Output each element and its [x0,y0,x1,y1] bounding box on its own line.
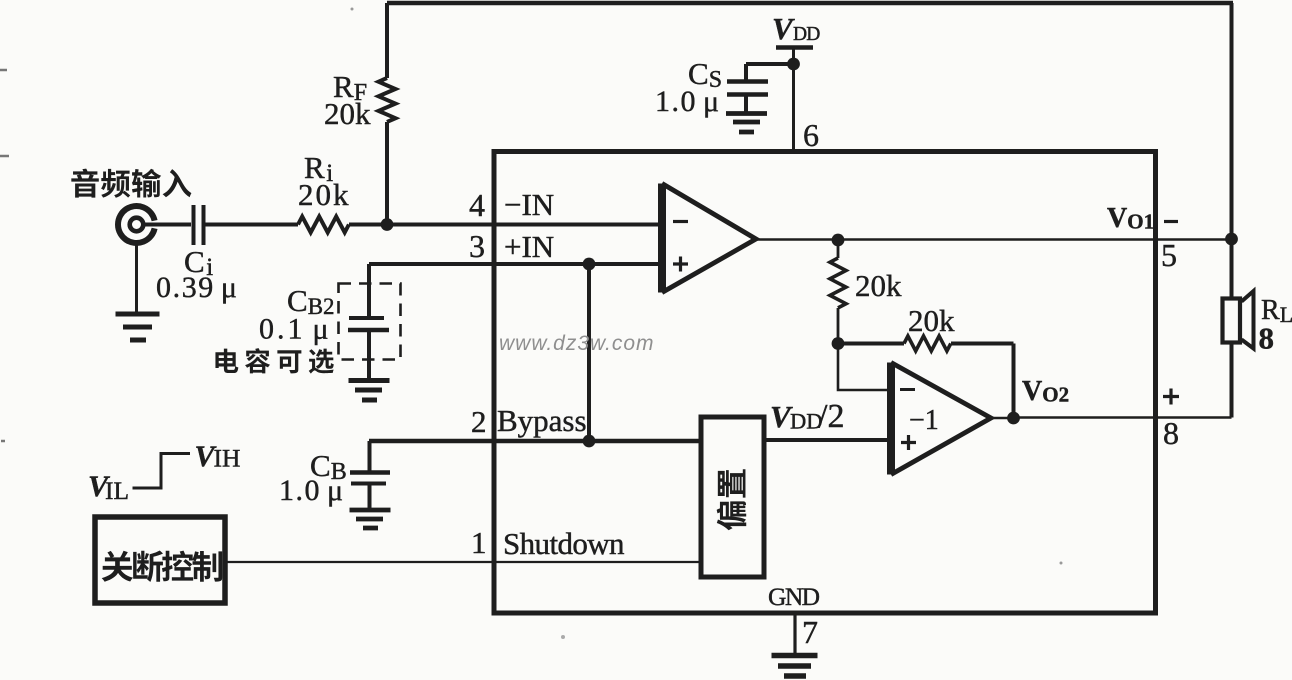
VDD supply bar [776,45,813,50]
scanner speckles [0,70,9,441]
wire: U2 minus input branch [838,344,891,391]
label plus polarity at pin 8 [1163,389,1179,405]
wire: Ci to Ri [205,223,298,227]
svg-text:1.0μ: 1.0μ [655,85,721,118]
svg-text:0.1μ: 0.1μ [259,313,332,346]
svg-text:3: 3 [469,228,485,264]
wire: connector to Ci [143,223,191,227]
node: VO2 [1007,412,1020,425]
wire: U2 output to VO2 node [991,417,1013,420]
wire: RF bottom lead to -IN node [385,122,389,225]
op-amp U1 triangle [662,184,756,293]
wire: Bypass net [369,439,701,444]
svg-text:VO2: VO2 [1022,376,1069,407]
svg-text:4: 4 [469,187,485,223]
label minus polarity at pin 5 [1164,220,1178,223]
svg-text:IL: IL [105,476,129,505]
op-amp U2 minus sign [900,388,915,391]
svg-text:www.dz3w.com: www.dz3w.com [499,332,655,355]
svg-text:VO1: VO1 [1107,203,1154,234]
svg-text:0.39μ: 0.39μ [156,271,239,304]
node: right rail VO1 junction [1225,233,1238,246]
wire: speaker bottom to VO2 corner [1230,342,1234,418]
bias block 偏置 [701,417,764,577]
ground (CS) [726,114,767,133]
node: VO1 / feedback resistor junction [832,234,845,247]
capacitor CB2 (optional, in dashed box) [349,316,384,320]
node: VDD / CS junction [787,58,800,71]
wire: pin 7 to ground [793,614,796,655]
resistor R1 20k (vertical from VO1) [837,240,840,258]
wire: feedback right segment down to VO2 [951,344,1014,419]
svg-text:−IN: −IN [504,187,554,222]
shutdown control box 关断控制 [95,517,225,603]
wire: VDD bar to pin 6 [792,48,795,152]
node: junction +IN / bypass drop [583,258,596,271]
svg-text:V: V [772,11,795,46]
svg-text:8: 8 [1163,415,1179,451]
wire: elbow to CS [746,64,794,80]
svg-text:−1: −1 [909,405,939,436]
svg-text:20k: 20k [324,96,371,131]
svg-text:Bypass: Bypass [497,403,587,438]
wire: +IN junction down to Bypass net [587,264,591,441]
svg-text:1.0μ: 1.0μ [279,474,345,507]
ground (pin 7) [772,656,818,677]
svg-text:+IN: +IN [504,229,554,264]
op-amp U2 triangle [891,363,991,475]
wire: VO2 line to right corner [1014,416,1232,419]
ground (input connector) [116,314,160,340]
label 音频输入 (audio input) [71,169,98,198]
svg-text:2: 2 [471,404,487,439]
svg-text:Shutdown: Shutdown [503,526,625,561]
resistor R2 20k (horizontal feedback) [904,336,951,351]
IC boundary box [494,152,1156,614]
node: R1 / R2 / U2 -IN junction [832,337,845,350]
resistor Ri (horizontal zigzag) [298,217,349,233]
svg-text:IH: IH [214,444,241,473]
op-amp U2 input bar [887,363,895,475]
node: junction RF / Ri / -IN [381,218,394,231]
svg-text:6: 6 [803,117,819,153]
op-amp U1 minus sign [673,220,688,223]
wire: right rail VO1 node down to speaker [1230,239,1234,300]
ground (CB2) [349,381,390,401]
wire: feedback left segment [838,342,904,346]
logic level step symbol VIL/VIH [133,454,191,489]
wire: VO1 line across IC edge to right rail [838,238,1232,241]
svg-text:DD: DD [793,24,820,45]
wire: right vertical rail down to VO1 node [1230,3,1234,239]
svg-text:/2: /2 [818,398,844,435]
wire: Ri to -IN pin of op-amp U1 [349,223,662,227]
svg-text:8: 8 [1259,321,1275,356]
svg-text:GND: GND [768,582,820,611]
wire: Shutdown net from control box to bias block [226,561,701,563]
capacitor CB [350,470,390,475]
wire: connector ground stub [135,243,138,313]
svg-text:7: 7 [802,614,818,650]
capacitor CS [727,79,768,84]
node: Bypass junction [583,435,596,448]
resistor RF (vertical zigzag) [379,78,396,122]
wire: CB drop [368,441,372,472]
input connector (coax jack) [118,206,155,243]
op-amp U1 input bar [658,184,666,293]
wire: U1 output to VO1 node [756,238,838,241]
wire: CB2 drop from +IN corner [367,264,371,319]
svg-text:1: 1 [471,525,487,560]
wire: top feedback rail from RF top to right rail [387,1,1233,6]
wire: RF top lead from top rail [385,3,389,78]
wire: +IN line into op-amp U1 [369,262,662,266]
svg-text:20k: 20k [908,303,955,338]
op-amp U1 plus sign [673,257,688,272]
dashed option box around CB2 [339,284,401,360]
speaker RL body [1223,299,1241,343]
label 电容可选 (capacitor optional) [215,349,238,373]
ground (CB) [350,510,391,528]
svg-text:20k: 20k [298,177,351,212]
op-amp U2 plus sign [901,435,916,450]
svg-text:5: 5 [1161,237,1177,273]
wire: VDD/2 from bias block to U2 plus input [764,438,891,442]
svg-text:20k: 20k [855,268,902,303]
capacitor Ci (series input cap) [192,205,196,245]
